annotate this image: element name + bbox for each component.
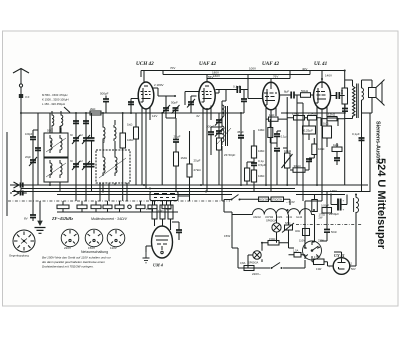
svg-text:0,1μ: 0,1μ [258,159,264,163]
resistor 7k under tube3 [269,117,279,121]
top rail second [163,71,310,75]
trimmer cap IF1c [187,99,195,108]
svg-text:160V: 160V [213,74,220,78]
cap 45uF top [241,90,247,114]
svg-text:1MΩ: 1MΩ [258,128,265,132]
svg-text:0,25μF: 0,25μF [304,129,314,133]
svg-text:0,01: 0,01 [323,122,329,126]
ballast resistor 175ohm [314,259,325,265]
transformer wires [345,80,372,119]
svg-text:220V~: 220V~ [252,272,261,276]
resistor 12k [327,117,337,121]
resistor 1k [332,147,342,152]
trimmer capacitor T3 [72,161,80,170]
cathode cap bottom [30,171,36,221]
svg-text:150Ω: 150Ω [269,237,275,241]
svg-text:UAF42: UAF42 [253,216,261,219]
trimmer capacitor T2 [82,113,90,201]
resistor cathode t2 [245,168,250,181]
resistor 17k [308,116,317,121]
magic eye tube UM4 [152,226,173,258]
trimmer cap IF1a [162,105,170,114]
IF2 trimmer cap a [215,117,223,126]
eye box wire right [178,195,189,197]
mains line [238,260,305,268]
long vertical x303 [302,108,304,201]
svg-text:GL42: GL42 [296,216,303,219]
mains selector socket 150V [85,229,103,247]
wires eye top [155,201,171,230]
osc IF coil with core [217,123,231,146]
resistor 50k horizontal [301,93,311,98]
tone cap 5000 [342,109,348,112]
svg-text:40V: 40V [302,67,307,71]
mains switch [271,263,283,270]
svg-text:Gegenkopplung: Gegenkopplung [9,254,29,258]
svg-text:UM 4: UM 4 [153,263,163,268]
wires osc cluster [103,113,123,201]
svg-text:1kΩ: 1kΩ [127,123,133,127]
box 0,25uF [303,126,316,134]
svg-text:70V: 70V [170,66,175,70]
svg-text:2MΩ: 2MΩ [146,208,151,211]
svg-text:2 180V: 2 180V [154,83,164,87]
svg-text:110V: 110V [299,239,305,243]
output transformer secondary [362,88,364,100]
heater switch [224,195,241,213]
svg-text:1kΩ: 1kΩ [269,113,275,117]
trimmer capacitor T4 [82,161,90,170]
ant trimmer b [83,113,89,136]
mains selector socket 110V [107,229,125,247]
resistor lamp shunt [268,241,279,246]
svg-text:140V: 140V [325,74,332,78]
output transformer primary [353,86,356,116]
eye resistor c [168,205,173,219]
svg-text:50pF: 50pF [171,101,178,105]
svg-text:ZF=452kHz: ZF=452kHz [51,216,73,221]
resistor 1k tube1 [134,127,139,139]
tube4 pin ticks [317,106,327,112]
series resistor 175/2W [312,200,318,212]
cap c4 [334,158,340,160]
ground symbol [35,201,46,233]
svg-text:0,5μF: 0,5μF [258,163,266,167]
switch stub ticks [63,201,167,205]
resistor 1M vertical [120,133,126,148]
IF2 trimmer cap b [215,128,223,137]
cap right column [359,138,365,140]
osc coil upper [103,125,116,141]
svg-text:220V: 220V [64,246,71,250]
tube1 pin ticks [142,107,150,113]
heater feed wires right [305,192,322,249]
volume pot [282,113,293,185]
wire coils to box1 [52,111,61,133]
svg-text:die dann parallel geschalteten: die dann parallel geschalteten Heizkreis… [42,260,105,264]
bottom bus line [57,211,178,213]
wires coil boxes [50,113,60,192]
svg-text:+: + [343,199,345,203]
svg-text:170Ω/1W: 170Ω/1W [272,199,283,202]
heater resistor 60ohm [259,197,269,202]
eye resistor b [160,205,165,219]
antenna coil b [61,113,63,128]
svg-text:1MΩ: 1MΩ [181,156,188,160]
top rail 70V [141,70,345,72]
resistor 1M d [312,144,317,155]
cap front-end low [35,144,41,156]
input jack arrows [10,182,27,196]
heater chain bumps [232,209,315,242]
tube UL41 [314,82,331,109]
svg-text:15W: 15W [224,234,230,238]
feedback wire left [6,132,8,216]
osc extra verticals [100,183,127,201]
top rail third [207,71,290,79]
cap 8uF coupling [291,92,294,99]
svg-text:0,05μF: 0,05μF [321,204,330,208]
cap 0,5uF [251,163,257,165]
IF2 resistor vertical [217,138,222,150]
svg-text:12V: 12V [152,114,157,118]
svg-text:15000: 15000 [50,165,53,172]
NTC resistor [282,223,294,233]
svg-text:Drahtwiderstand mit 70Ω/3W vor: Drahtwiderstand mit 70Ω/3W vorlegen. [42,265,94,269]
trimmer capacitor T1c [89,113,95,185]
svg-text:500: 500 [47,130,52,133]
svg-text:1MΩ: 1MΩ [258,149,265,153]
field choke [356,198,359,213]
svg-text:3·F: 3·F [25,95,30,99]
svg-text:2kΩ: 2kΩ [90,107,96,111]
eye ground [143,246,152,263]
svg-text:8μF: 8μF [284,90,289,94]
rail x345 [344,113,346,185]
svg-text:L 150...320 450μH: L 150...320 450μH [42,102,65,106]
band coil box 2 [44,158,68,182]
tube UAF42 a [199,82,215,110]
box 0,05uF bus [322,208,332,214]
eye resistor a [152,205,157,219]
grid leak tube3 [268,128,273,138]
wires cluster C [162,96,197,201]
trimmer cap IF1b [172,105,180,114]
wires lamp net [248,215,294,269]
speaker [369,80,385,106]
trimmer capacitor T4c [89,164,95,192]
svg-text:UL41: UL41 [286,216,293,219]
ant trimmer a [73,113,79,136]
svg-text:110V: 110V [110,246,117,250]
svg-text:40Ω: 40Ω [295,229,300,233]
det cap 2 [274,149,280,151]
grid cap 50pF [128,102,134,113]
tube2 pin wires [185,75,226,192]
main rail D [57,194,232,196]
svg-text:+: + [343,208,345,212]
fuse box [244,266,254,271]
resistor 27k [294,116,305,121]
rail x361 [361,113,363,192]
tube UCH42 [138,82,154,109]
svg-text:20pF: 20pF [25,155,31,159]
svg-text:UCH 42: UCH 42 [136,61,154,67]
tube1 pin wires [131,71,175,189]
wires cluster E [281,97,345,148]
svg-text:1MΩ: 1MΩ [258,174,265,178]
dial lamp 2 [253,251,261,259]
electrolytic 2x50uF [338,199,341,211]
svg-text:M 550...1500 470μH: M 550...1500 470μH [42,93,67,97]
svg-text:27kΩ: 27kΩ [194,168,202,172]
svg-text:UAF 42: UAF 42 [199,61,216,67]
svg-text:175Ω: 175Ω [314,255,320,259]
right rail vertical [370,113,372,192]
tube2 pin ticks [203,106,211,113]
rectifier tube UY41 [333,258,350,275]
wires cluster D [222,130,254,201]
resistor 40ohm [303,229,310,236]
cathode cap tube4 [337,92,340,99]
eye right cap [172,222,182,240]
cap 50nF psu [324,230,330,233]
fuse 1,5A [294,253,301,258]
svg-text:175V: 175V [330,189,337,193]
resistor 2k [90,111,101,115]
svg-text:K 1500...3200 100μH: K 1500...3200 100μH [42,98,69,102]
tube UAF42 b [263,82,280,110]
svg-text:UAF 42: UAF 42 [262,61,279,67]
svg-text:55V: 55V [208,75,213,79]
svg-text:SP60/2A: SP60/2A [248,261,259,265]
svg-text:Bei 150V-Netz das Gerät auf 11: Bei 150V-Netz das Gerät auf 110V schalte… [42,256,112,260]
svg-text:50nF: 50nF [331,230,337,234]
svg-text:0,1μ: 0,1μ [281,135,287,139]
heater resistor 170ohm [271,197,284,202]
svg-text:25μF: 25μF [174,135,181,139]
grid stopper box 0,01uF [323,126,332,138]
chassis dash line [8,200,230,202]
cap c3 [306,159,312,161]
pill stubs down [63,209,153,212]
antenna [13,69,29,196]
svg-text:100V: 100V [249,67,256,71]
wires tube4 lower [327,118,338,165]
tube4 pin wires [317,71,334,192]
svg-text:2W: 2W [319,216,323,220]
trimmer capacitor T1 [72,113,80,201]
long vertical x297 [296,103,298,185]
svg-text:2x50μF: 2x50μF [329,212,339,216]
magic eye switch box [150,192,178,201]
svg-text:25μF: 25μF [194,159,201,163]
svg-text:500pF: 500pF [100,92,109,96]
wire x38 [37,113,39,185]
top-left rail [21,112,244,114]
svg-text:SP60/2A: SP60/2A [266,219,277,223]
resistor 1M a [251,146,256,158]
svg-text:5MΩ: 5MΩ [166,208,171,211]
osc coil box dashed [96,150,130,183]
resistor 1M b [251,170,256,182]
svg-text:1,5A: 1,5A [293,249,299,253]
svg-text:0,1μF: 0,1μF [352,132,360,136]
svg-text:Netzumschaltung: Netzumschaltung [81,250,108,254]
svg-text:60Ω/1W: 60Ω/1W [259,199,269,202]
svg-text:4V: 4V [196,114,200,118]
svg-text:50V: 50V [351,267,356,271]
wires rectifier [312,212,356,266]
main rail C [12,191,370,193]
socket Gegenkopplung [13,230,35,252]
svg-text:1kΩ: 1kΩ [333,143,339,147]
wire mains up [232,212,238,268]
svg-text:500: 500 [340,89,344,94]
antenna coil a [52,113,54,128]
main rail B [21,188,295,190]
tube3 pin ticks [266,108,276,114]
svg-text:1MΩ: 1MΩ [158,210,163,213]
svg-text:50kΩ: 50kΩ [301,89,309,93]
svg-text:100pF: 100pF [25,132,33,136]
svg-text:UL 41: UL 41 [314,61,328,67]
resistor 27k vertical [187,164,192,177]
chassis dash psu [296,224,362,226]
svg-text:13W: 13W [316,267,322,271]
switch wafer row [57,205,171,209]
screen feed vertical [247,75,249,90]
svg-text:NTC: NTC [285,221,290,225]
resistor anode feed vertical [342,88,348,104]
heater resistor link wire [240,199,291,205]
pointer from table [64,107,70,113]
svg-text:76V: 76V [273,75,278,79]
svg-text:ZF 50pF: ZF 50pF [224,153,236,157]
band coil box 1 [44,133,68,157]
svg-text:15000: 15000 [103,165,106,172]
svg-text:Multinstrument · 34Ω/V: Multinstrument · 34Ω/V [91,217,128,221]
tube3 pin wires [266,79,289,192]
IF2 wires [218,113,220,185]
svg-text:0,8A: 0,8A [240,261,246,265]
mains selector socket 220V [61,229,79,247]
svg-text:10kΩ: 10kΩ [284,149,292,153]
IF2 upper coil [222,103,224,119]
transformer core [357,84,359,119]
voltage selector plug [303,241,322,260]
det cap 0,1uF [274,134,280,136]
svg-text:524 U Mittelsuper: 524 U Mittelsuper [375,158,387,250]
capacitor C-ant [103,99,109,102]
resistor 1M vertical c [174,152,179,166]
svg-text:15000: 15000 [50,140,53,147]
svg-text:UM4: UM4 [277,216,283,219]
svg-text:8V: 8V [24,217,28,221]
svg-text:2000: 2000 [115,166,118,172]
svg-text:5000: 5000 [103,137,106,143]
main rail A [12,184,368,186]
resistor 30k [293,168,305,173]
